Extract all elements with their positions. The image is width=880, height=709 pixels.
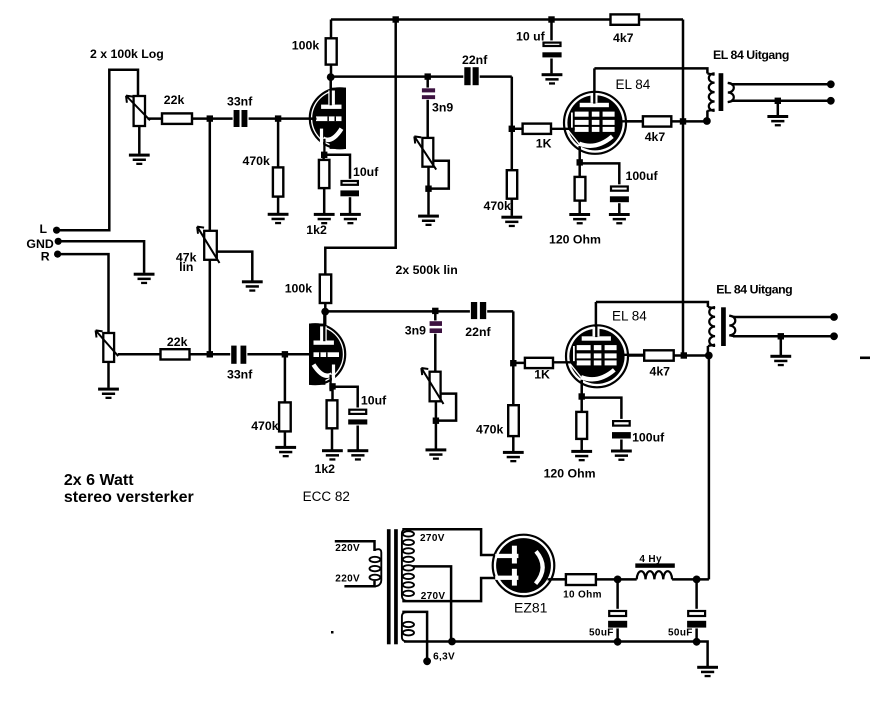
svg-text:120 Ohm: 120 Ohm xyxy=(544,467,596,481)
svg-text:3n9: 3n9 xyxy=(405,323,426,337)
svg-text:50uF: 50uF xyxy=(589,628,614,639)
svg-text:6,3V: 6,3V xyxy=(433,652,455,663)
svg-text:EZ81: EZ81 xyxy=(514,599,548,615)
svg-text:L: L xyxy=(40,222,48,236)
svg-text:470k: 470k xyxy=(251,419,279,433)
svg-text:120 Ohm: 120 Ohm xyxy=(549,232,601,246)
svg-text:2x 500k lin: 2x 500k lin xyxy=(396,263,458,277)
svg-text:270V: 270V xyxy=(420,533,445,544)
svg-text:470k: 470k xyxy=(243,154,271,168)
svg-text:3n9: 3n9 xyxy=(432,101,453,115)
svg-text:270V: 270V xyxy=(421,591,446,602)
svg-text:100uf: 100uf xyxy=(626,169,659,183)
svg-text:50uF: 50uF xyxy=(668,628,693,639)
svg-text:EL 84: EL 84 xyxy=(612,308,647,323)
svg-text:22k: 22k xyxy=(167,335,188,349)
svg-text:22k: 22k xyxy=(164,93,185,107)
svg-text:10uf: 10uf xyxy=(353,165,379,179)
svg-text:4k7: 4k7 xyxy=(645,130,666,144)
svg-text:2x 6 Watt: 2x 6 Watt xyxy=(64,472,134,489)
svg-text:EL 84 Uitgang: EL 84 Uitgang xyxy=(713,48,789,62)
svg-text:4k7: 4k7 xyxy=(613,31,634,45)
svg-text:1K: 1K xyxy=(536,136,552,150)
svg-text:33nf: 33nf xyxy=(227,94,253,108)
svg-text:220V: 220V xyxy=(335,573,360,584)
svg-text:1k2: 1k2 xyxy=(306,223,327,237)
svg-text:1k2: 1k2 xyxy=(315,462,336,476)
svg-text:10 uf: 10 uf xyxy=(516,29,546,43)
svg-text:100uf: 100uf xyxy=(632,430,665,444)
svg-text:ECC 82: ECC 82 xyxy=(303,489,350,504)
svg-text:22nf: 22nf xyxy=(462,53,488,67)
svg-text:EL 84 Uitgang: EL 84 Uitgang xyxy=(716,283,792,297)
svg-text:33nf: 33nf xyxy=(227,368,253,382)
svg-text:470k: 470k xyxy=(484,199,512,213)
svg-text:10uf: 10uf xyxy=(361,394,387,408)
svg-text:100k: 100k xyxy=(285,281,313,295)
svg-text:4k7: 4k7 xyxy=(650,365,671,379)
svg-text:22nf: 22nf xyxy=(465,325,491,339)
svg-text:EL 84: EL 84 xyxy=(616,77,651,92)
svg-text:220V: 220V xyxy=(335,543,360,554)
svg-text:2 x 100k Log: 2 x 100k Log xyxy=(90,47,164,61)
svg-text:lin: lin xyxy=(179,260,193,274)
svg-text:1K: 1K xyxy=(534,367,550,381)
svg-text:100k: 100k xyxy=(292,39,320,53)
svg-text:4 Hy: 4 Hy xyxy=(639,554,662,565)
svg-text:stereo versterker: stereo versterker xyxy=(64,489,194,506)
svg-text:R: R xyxy=(41,249,50,263)
svg-text:10 Ohm: 10 Ohm xyxy=(563,590,602,601)
svg-text:470k: 470k xyxy=(476,423,504,437)
